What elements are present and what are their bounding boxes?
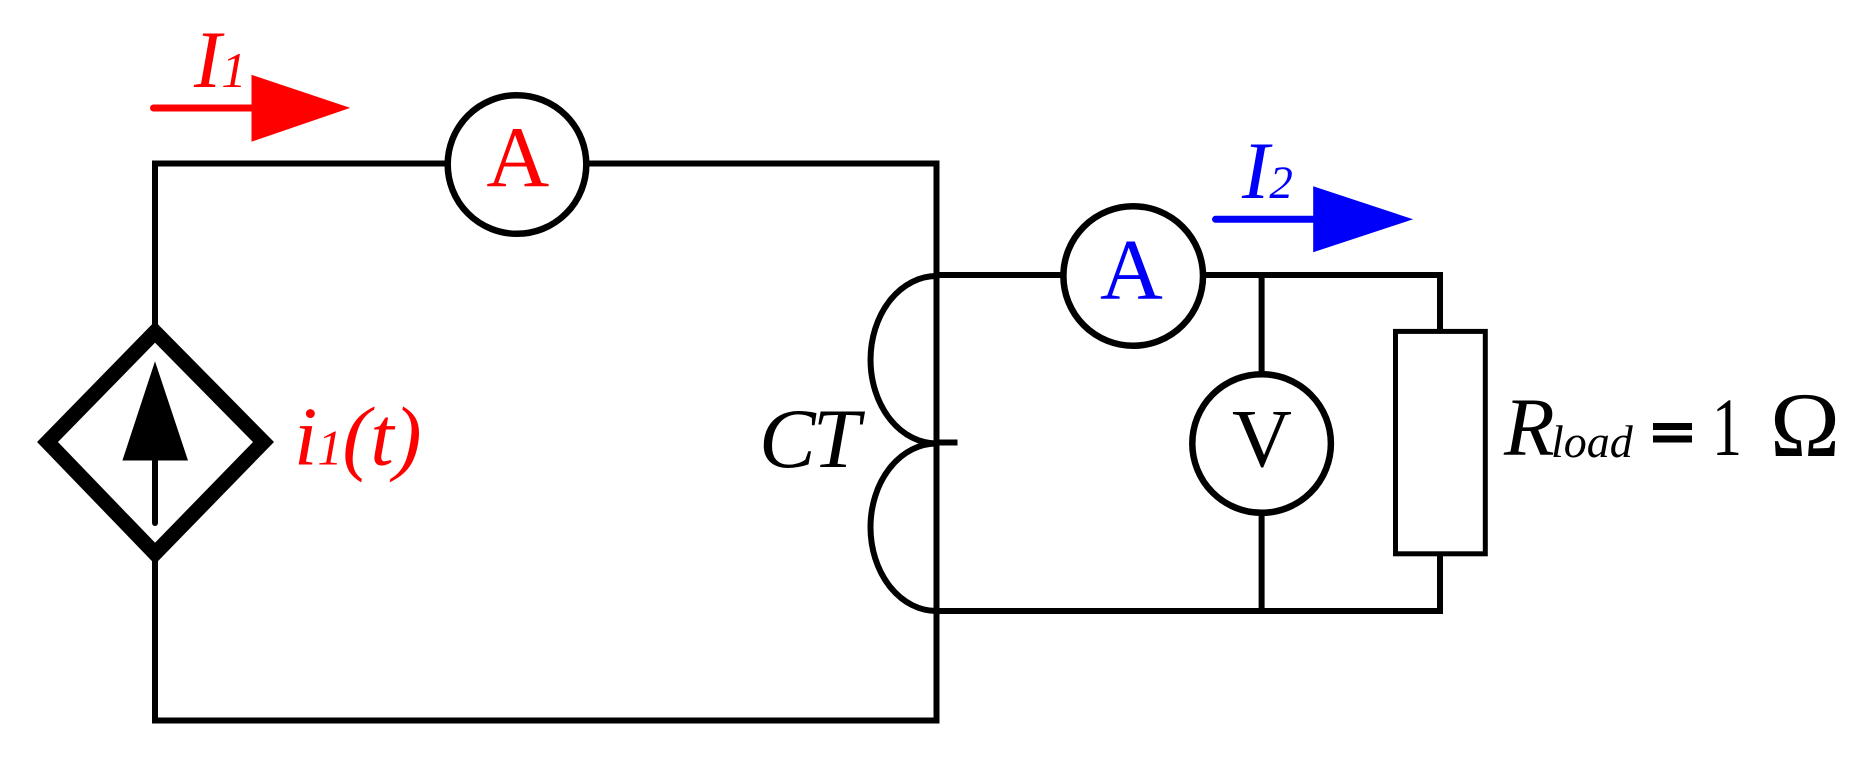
svg-text:1: 1 xyxy=(1712,381,1742,473)
svg-text:R: R xyxy=(1503,381,1555,473)
svg-text:V: V xyxy=(1232,393,1292,485)
svg-text:Ω: Ω xyxy=(1770,374,1840,476)
svg-text:load: load xyxy=(1551,416,1634,467)
svg-text:A: A xyxy=(1100,221,1163,318)
svg-text:A: A xyxy=(486,109,549,206)
svg-text:CT: CT xyxy=(759,392,866,486)
svg-text:i1(t): i1(t) xyxy=(294,391,422,484)
